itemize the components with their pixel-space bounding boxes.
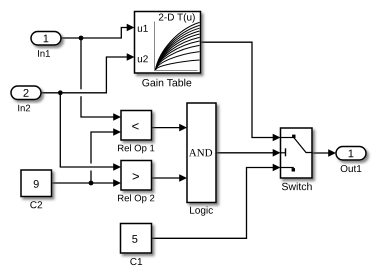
wire Switch output to Out1 [312, 149, 336, 157]
pin label u2 [138, 55, 148, 62]
switch icon bottom throw line and contact dot [281, 168, 296, 172]
port number 2 [23, 89, 28, 97]
wire Gain Table output to Switch input 1 [201, 42, 281, 141]
label Rel Op 2 [118, 194, 154, 203]
inport In2 [11, 86, 41, 111]
block constant C2 value 9 [21, 170, 52, 197]
wire Rel Op 1 output to Logic input 1 [152, 124, 188, 132]
icon text 2-D T(u) [159, 13, 195, 22]
label Rel Op 1 [118, 144, 154, 153]
label C2 [30, 201, 42, 208]
label Switch [282, 182, 312, 190]
label Gain Table [142, 79, 191, 87]
value 9 [34, 180, 39, 188]
wire In1 junction down to Rel Op 1 input 1 [81, 38, 121, 121]
block Switch [281, 128, 313, 178]
pin label u1 [138, 25, 148, 32]
switch icon common diagonal and output stub [294, 138, 312, 153]
lookup table curves [156, 22, 200, 69]
wire In2 junction down to Rel Op 2 input 1 [60, 93, 121, 171]
switch icon control stub and tick [281, 148, 286, 156]
wire C1 to Switch input 3 [152, 164, 281, 239]
switch icon top throw line and contact dot [281, 135, 296, 138]
wire Rel Op 2 output to Logic input 2 [152, 174, 188, 182]
axes of lookup table icon [155, 22, 198, 71]
block Rel Op 2 (relational operator >) [121, 161, 152, 191]
wire C2 junction up to Rel Op 1 input 2 [91, 128, 121, 183]
node junction on C2 wire [89, 181, 94, 186]
block constant C1 value 5 [121, 224, 152, 254]
block Logic (logical operator AND) [187, 103, 216, 203]
value 5 [132, 235, 137, 243]
block Gain Table (2-D lookup table) [135, 12, 201, 74]
block Rel Op 1 (relational operator <) [121, 111, 152, 141]
port number 1 [349, 150, 354, 158]
outport Out1 [336, 147, 366, 173]
node junction on In2 wire [58, 90, 63, 95]
operator symbol > [133, 173, 139, 180]
wire Logic output to Switch control input [216, 149, 281, 157]
inport In1 [31, 32, 61, 57]
label C1 [130, 258, 142, 265]
operator text AND [189, 149, 212, 156]
wire In2 to corner to Gain Table u2 [41, 53, 135, 93]
node junction on In1 wire [79, 36, 84, 41]
wire In1 to corner to Gain Table u1 [61, 24, 135, 38]
wire C2 to Rel Op 2 input 2 [52, 179, 122, 187]
port number 1 [44, 35, 49, 43]
label Logic [190, 206, 213, 215]
operator symbol < [132, 123, 138, 130]
